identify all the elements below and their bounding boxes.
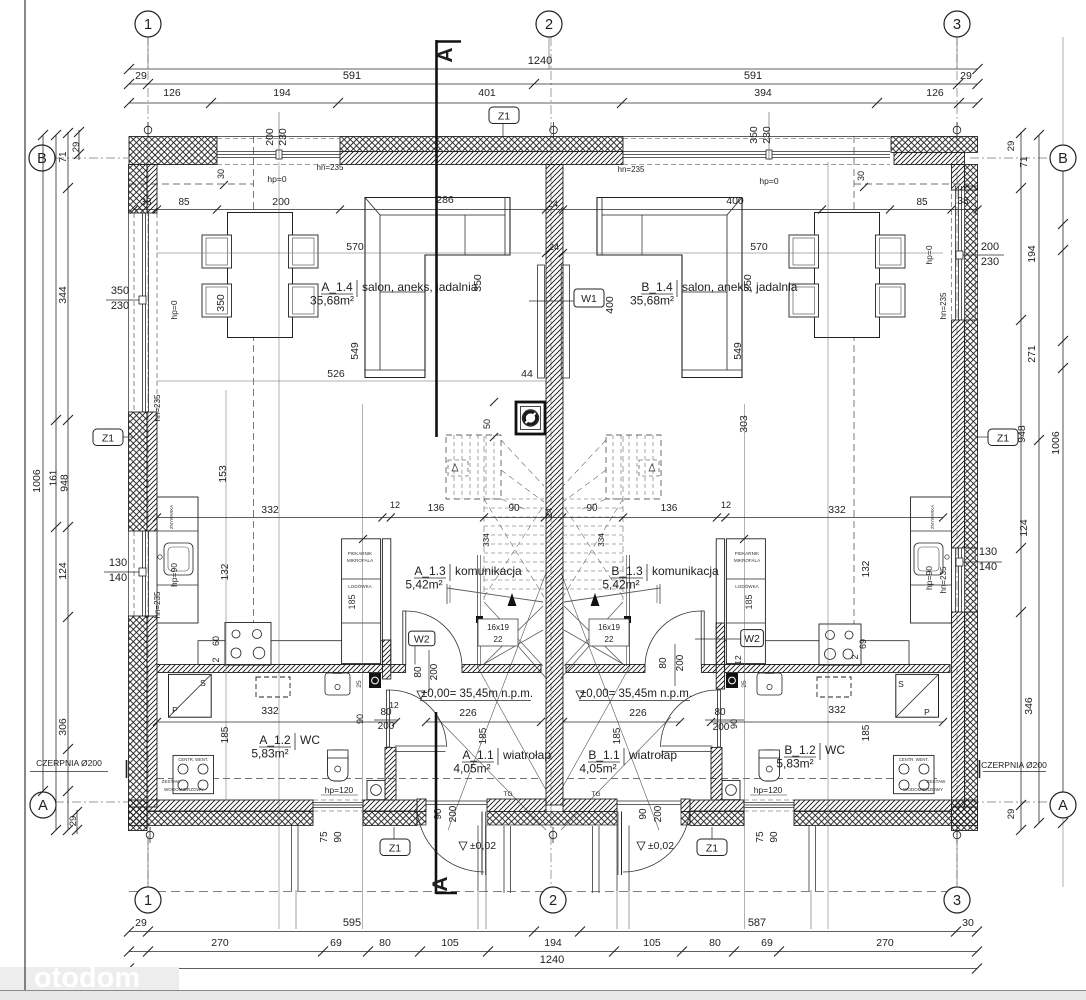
svg-text:587: 587 [748, 917, 766, 929]
svg-text:A: A [1058, 798, 1068, 814]
svg-text:185: 185 [612, 727, 623, 744]
svg-text:hp=0: hp=0 [169, 300, 179, 319]
svg-text:200: 200 [264, 128, 276, 146]
svg-text:332: 332 [261, 504, 279, 516]
svg-text:44: 44 [521, 368, 533, 380]
svg-text:PIEKARNIK: PIEKARNIK [735, 551, 760, 556]
svg-text:230: 230 [981, 256, 999, 268]
svg-text:124: 124 [57, 562, 69, 580]
svg-text:Z1: Z1 [706, 843, 718, 855]
svg-text:2: 2 [545, 17, 553, 33]
svg-text:200: 200 [981, 241, 999, 253]
svg-text:hp=90: hp=90 [924, 566, 934, 590]
svg-text:22: 22 [605, 635, 614, 644]
svg-text:570: 570 [346, 241, 364, 253]
svg-text:80: 80 [413, 666, 424, 678]
svg-text:CENTR. WENT.: CENTR. WENT. [899, 757, 929, 762]
svg-text:±0,00= 35,45m n.p.m.: ±0,00= 35,45m n.p.m. [580, 688, 692, 700]
svg-text:±0,02: ±0,02 [470, 840, 496, 852]
svg-text:270: 270 [211, 937, 229, 949]
svg-text:A_1.3: A_1.3 [414, 564, 446, 578]
svg-text:286: 286 [436, 194, 454, 206]
svg-text:salon, aneks, jadalnia: salon, aneks, jadalnia [362, 280, 478, 294]
svg-text:591: 591 [343, 70, 361, 82]
svg-text:MIKROFALA: MIKROFALA [347, 558, 374, 563]
svg-text:24: 24 [544, 508, 554, 518]
svg-text:otodom: otodom [34, 962, 140, 994]
svg-text:230: 230 [111, 300, 129, 312]
svg-text:80: 80 [714, 707, 726, 718]
svg-text:200: 200 [675, 654, 686, 671]
svg-text:2: 2 [211, 657, 221, 662]
svg-text:W2: W2 [744, 633, 760, 645]
svg-text:W1: W1 [581, 293, 597, 305]
svg-text:80: 80 [658, 657, 669, 669]
svg-text:B: B [37, 151, 47, 167]
svg-text:80: 80 [709, 937, 721, 949]
svg-text:12: 12 [389, 700, 399, 710]
svg-text:Z1: Z1 [997, 433, 1009, 445]
svg-text:±0,02: ±0,02 [648, 840, 674, 852]
svg-text:1240: 1240 [540, 954, 564, 966]
svg-text:B_1.3: B_1.3 [611, 564, 643, 578]
svg-text:194: 194 [273, 87, 291, 99]
svg-text:126: 126 [926, 87, 944, 99]
svg-text:35,68m²: 35,68m² [310, 294, 354, 308]
svg-text:194: 194 [544, 937, 562, 949]
svg-text:350: 350 [215, 294, 227, 312]
svg-text:wiatrołap: wiatrołap [502, 748, 551, 762]
svg-text:130: 130 [979, 546, 997, 558]
svg-text:105: 105 [643, 937, 661, 949]
svg-text:hp=120: hp=120 [325, 785, 354, 795]
svg-text:S: S [200, 678, 206, 688]
svg-text:350: 350 [748, 126, 760, 144]
svg-text:526: 526 [327, 368, 345, 380]
svg-text:16x19: 16x19 [487, 623, 509, 632]
svg-text:400: 400 [726, 195, 744, 207]
svg-text:WC: WC [825, 743, 845, 757]
svg-text:69: 69 [858, 639, 868, 649]
svg-text:B: B [1058, 151, 1068, 167]
svg-text:200: 200 [429, 663, 440, 680]
svg-text:4,05m²: 4,05m² [453, 762, 490, 776]
svg-text:570: 570 [750, 241, 768, 253]
svg-text:TG: TG [503, 791, 512, 798]
svg-text:71: 71 [1019, 156, 1030, 168]
svg-text:ZMYWARKA: ZMYWARKA [930, 505, 935, 529]
svg-text:12: 12 [721, 500, 731, 510]
svg-text:85: 85 [916, 197, 928, 208]
svg-text:5,83m²: 5,83m² [251, 747, 288, 761]
svg-text:271: 271 [1026, 345, 1038, 363]
svg-text:CENTR. WENT.: CENTR. WENT. [178, 757, 208, 762]
svg-text:75: 75 [755, 831, 766, 843]
svg-text:hn=235: hn=235 [153, 591, 162, 618]
svg-text:4,05m²: 4,05m² [579, 762, 616, 776]
svg-text:WODOMIERZOWY: WODOMIERZOWY [164, 787, 204, 792]
svg-text:50: 50 [482, 419, 492, 429]
svg-text:200: 200 [713, 722, 730, 733]
svg-text:S: S [898, 679, 904, 689]
svg-text:ZMYWARKA: ZMYWARKA [169, 505, 174, 529]
svg-text:226: 226 [459, 707, 477, 719]
svg-text:A: A [429, 876, 452, 891]
svg-text:80: 80 [379, 937, 391, 949]
svg-text:5,42m²: 5,42m² [405, 578, 442, 592]
svg-text:B_1.4: B_1.4 [641, 280, 673, 294]
svg-text:CZERPNIA Ø200: CZERPNIA Ø200 [981, 760, 1047, 770]
svg-text:90: 90 [508, 503, 520, 514]
svg-text:140: 140 [109, 572, 127, 584]
svg-text:22: 22 [494, 635, 503, 644]
svg-text:hn=235: hn=235 [317, 163, 344, 172]
svg-text:185: 185 [861, 724, 872, 741]
svg-text:29: 29 [71, 142, 82, 153]
svg-text:595: 595 [343, 917, 361, 929]
svg-text:komunikacja: komunikacja [652, 564, 719, 578]
svg-text:1: 1 [144, 893, 152, 909]
svg-text:24: 24 [548, 199, 558, 209]
svg-text:hp=90: hp=90 [169, 563, 179, 587]
svg-text:90: 90 [729, 719, 739, 729]
svg-text:948: 948 [59, 474, 71, 492]
svg-text:hn=235: hn=235 [153, 394, 162, 421]
svg-text:332: 332 [828, 704, 846, 716]
svg-text:71: 71 [58, 151, 69, 163]
svg-text:130: 130 [109, 557, 127, 569]
svg-text:Z1: Z1 [389, 843, 401, 855]
svg-text:394: 394 [754, 87, 772, 99]
svg-text:38: 38 [140, 197, 152, 208]
svg-text:±0,00= 35,45m n.p.m.: ±0,00= 35,45m n.p.m. [421, 688, 533, 700]
svg-text:hn=235: hn=235 [939, 292, 948, 319]
svg-text:A_1.1: A_1.1 [462, 748, 494, 762]
svg-text:5,42m²: 5,42m² [602, 578, 639, 592]
svg-text:ZESTAW: ZESTAW [927, 779, 946, 784]
svg-text:185: 185 [744, 594, 754, 609]
svg-text:126: 126 [163, 87, 181, 99]
svg-text:136: 136 [428, 503, 445, 514]
svg-text:346: 346 [1023, 697, 1035, 715]
svg-text:P: P [924, 707, 930, 717]
svg-text:153: 153 [217, 465, 229, 483]
svg-text:200: 200 [448, 805, 459, 822]
svg-text:124: 124 [1018, 519, 1030, 537]
svg-text:Z1: Z1 [102, 433, 114, 445]
svg-text:200: 200 [653, 805, 664, 822]
svg-text:1006: 1006 [31, 469, 43, 493]
svg-text:136: 136 [661, 503, 678, 514]
svg-text:334: 334 [482, 533, 491, 547]
svg-text:132: 132 [861, 560, 872, 577]
svg-text:Z1: Z1 [498, 111, 510, 123]
svg-text:ZESTAW: ZESTAW [162, 779, 181, 784]
svg-text:hp=0: hp=0 [267, 174, 286, 184]
svg-text:25: 25 [356, 680, 363, 688]
svg-text:400: 400 [604, 296, 616, 314]
svg-text:30: 30 [962, 917, 974, 929]
svg-text:hp=0: hp=0 [924, 245, 934, 264]
svg-text:69: 69 [761, 937, 773, 949]
svg-text:85: 85 [178, 197, 190, 208]
svg-text:29: 29 [135, 70, 147, 82]
svg-text:salon, aneks, jadalnia: salon, aneks, jadalnia [682, 280, 798, 294]
svg-text:29: 29 [960, 70, 972, 82]
svg-text:200: 200 [272, 196, 290, 208]
svg-text:60: 60 [211, 636, 221, 646]
svg-text:230: 230 [277, 128, 289, 146]
svg-text:334: 334 [597, 533, 606, 547]
svg-text:591: 591 [744, 70, 762, 82]
svg-text:350: 350 [111, 285, 129, 297]
svg-text:16x19: 16x19 [598, 623, 620, 632]
svg-text:185: 185 [478, 727, 489, 744]
svg-text:hp=120: hp=120 [754, 785, 783, 795]
svg-text:90: 90 [333, 831, 344, 843]
svg-text:P: P [172, 705, 178, 715]
svg-text:A: A [434, 47, 457, 62]
svg-text:2: 2 [850, 654, 860, 659]
svg-text:332: 332 [261, 705, 279, 717]
svg-text:29: 29 [68, 816, 79, 827]
svg-text:B_1.2: B_1.2 [784, 743, 816, 757]
svg-text:WC: WC [300, 733, 320, 747]
svg-text:12: 12 [390, 500, 400, 510]
svg-text:30: 30 [216, 169, 226, 179]
svg-text:344: 344 [57, 286, 69, 304]
svg-text:hn=235: hn=235 [618, 165, 645, 174]
svg-text:A_1.4: A_1.4 [321, 280, 353, 294]
svg-text:MIKROFALA: MIKROFALA [734, 558, 761, 563]
svg-text:LODÓWKA: LODÓWKA [348, 583, 372, 589]
svg-text:29: 29 [135, 917, 147, 929]
svg-text:PIEKARNIK: PIEKARNIK [348, 551, 373, 556]
svg-text:CZERPNIA Ø200: CZERPNIA Ø200 [36, 758, 102, 768]
svg-text:LODÓWKA: LODÓWKA [735, 583, 759, 589]
svg-text:105: 105 [441, 937, 459, 949]
svg-text:270: 270 [876, 937, 894, 949]
svg-text:3: 3 [953, 893, 961, 909]
svg-text:69: 69 [330, 937, 342, 949]
svg-text:wiatrołap: wiatrołap [628, 748, 677, 762]
svg-text:komunikacja: komunikacja [455, 564, 522, 578]
svg-text:12: 12 [733, 655, 743, 665]
svg-text:306: 306 [57, 718, 69, 736]
svg-text:75: 75 [319, 831, 330, 843]
svg-text:549: 549 [349, 342, 361, 360]
svg-text:185: 185 [220, 726, 231, 743]
svg-text:549: 549 [732, 342, 744, 360]
svg-text:140: 140 [979, 561, 997, 573]
svg-text:hp=0: hp=0 [759, 176, 778, 186]
svg-text:401: 401 [478, 87, 496, 99]
svg-text:90: 90 [586, 503, 598, 514]
svg-text:3: 3 [953, 17, 961, 33]
svg-text:A_1.2: A_1.2 [259, 733, 291, 747]
svg-text:90: 90 [638, 808, 649, 820]
svg-text:29: 29 [1006, 141, 1017, 152]
svg-text:303: 303 [738, 415, 750, 433]
svg-text:35,68m²: 35,68m² [630, 294, 674, 308]
svg-text:1006: 1006 [1050, 431, 1062, 455]
svg-text:30: 30 [856, 171, 866, 181]
svg-text:200: 200 [378, 721, 395, 732]
svg-text:5,83m²: 5,83m² [776, 757, 813, 771]
svg-text:132: 132 [220, 563, 231, 580]
svg-text:1240: 1240 [528, 55, 552, 67]
svg-text:194: 194 [1026, 245, 1038, 263]
svg-text:185: 185 [347, 594, 357, 609]
svg-text:A: A [38, 798, 48, 814]
svg-text:90: 90 [433, 808, 444, 820]
svg-text:230: 230 [761, 126, 773, 144]
svg-text:38: 38 [957, 196, 969, 207]
svg-text:WODOMIERZOWY: WODOMIERZOWY [903, 787, 943, 792]
svg-text:332: 332 [828, 504, 846, 516]
svg-text:B_1.1: B_1.1 [588, 748, 620, 762]
svg-text:24: 24 [549, 242, 559, 252]
svg-text:hn=235: hn=235 [939, 566, 948, 593]
svg-text:90: 90 [769, 831, 780, 843]
svg-text:29: 29 [1006, 809, 1017, 820]
svg-text:226: 226 [629, 707, 647, 719]
svg-text:1: 1 [144, 17, 152, 33]
svg-text:90: 90 [355, 714, 365, 724]
svg-text:2: 2 [549, 893, 557, 909]
svg-text:W2: W2 [414, 634, 430, 646]
svg-text:TG: TG [591, 791, 600, 798]
